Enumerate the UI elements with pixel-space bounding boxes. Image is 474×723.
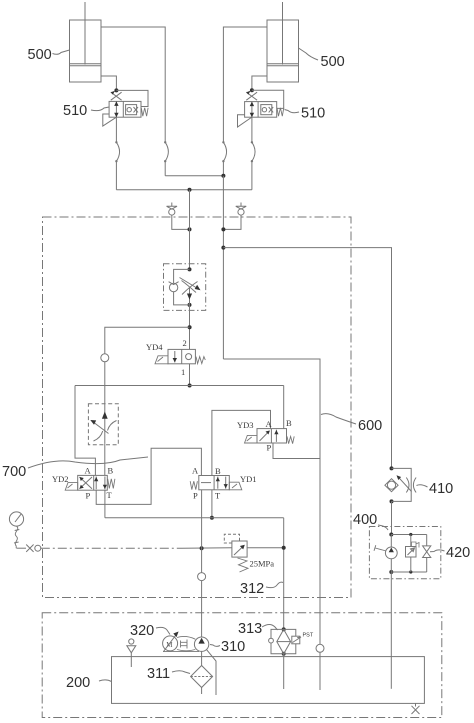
flow control valve FC1	[164, 264, 206, 311]
pressure gauge	[9, 512, 23, 548]
gauge line dash-dot	[41, 547, 182, 549]
wire 510R bottom down	[251, 117, 253, 190]
wire YD2 P cascade to YD1 A	[96, 448, 201, 504]
wire YD1 T to return rail junction	[210, 490, 214, 520]
wire right cylinder top port down	[223, 27, 267, 176]
svg-text:500: 500	[28, 47, 52, 63]
wire 510L bottom down	[115, 117, 117, 190]
svg-text:A: A	[192, 466, 199, 476]
svg-text:A: A	[266, 419, 273, 429]
wire rail left leg to YD2 A	[75, 386, 95, 476]
solenoid valve YD3	[237, 418, 294, 453]
wire pump pressure line	[201, 490, 203, 637]
svg-text:200: 200	[66, 675, 90, 691]
wire pump case drain	[206, 649, 216, 695]
throttle check valve 410	[385, 466, 416, 503]
wire main line FC1 to YD4	[188, 305, 192, 350]
label 311	[147, 666, 190, 682]
wire supply rail y385	[75, 385, 284, 387]
wire YD1 B up and to YD3 A	[212, 410, 271, 475]
solenoid valve YD1	[190, 466, 256, 501]
node main line TP1 junction	[188, 227, 192, 231]
svg-text:510: 510	[63, 103, 87, 119]
hand pump unit 400 dashed box	[369, 527, 440, 579]
drain plug mark	[412, 703, 420, 714]
check ball on tank drain line	[316, 644, 324, 690]
wire 313 to tank	[283, 654, 285, 689]
svg-text:T: T	[107, 490, 113, 500]
svg-text:311: 311	[147, 666, 170, 682]
label 510 left	[63, 103, 109, 119]
wire hand pump to tank	[390, 572, 392, 689]
wire left cylinder top port down	[101, 27, 165, 176]
svg-text:B: B	[215, 466, 221, 476]
dash-dot enclosure 200	[42, 613, 442, 718]
wire rod line down to corner	[221, 176, 225, 359]
relief valve 312	[224, 534, 285, 572]
label 400	[353, 512, 388, 530]
svg-text:420: 420	[446, 545, 470, 561]
label 313	[238, 621, 278, 637]
svg-text:312: 312	[240, 581, 264, 597]
svg-text:25MPa: 25MPa	[250, 559, 275, 569]
wire rail right leg to YD3 B	[283, 386, 285, 429]
svg-text:313: 313	[238, 621, 262, 637]
hose arc on line x165	[164, 141, 168, 162]
svg-text:B: B	[286, 418, 292, 428]
hose arc on line x116	[115, 141, 119, 162]
wire rod line to right riser	[223, 248, 391, 469]
svg-text:P: P	[86, 491, 91, 501]
cylinder 500 right	[267, 2, 299, 82]
svg-text:600: 600	[358, 418, 382, 434]
svg-text:P: P	[193, 491, 198, 501]
svg-text:410: 410	[429, 481, 453, 497]
gauge isolator throttle	[17, 545, 41, 552]
svg-text:2: 2	[183, 338, 187, 348]
svg-text:1: 1	[181, 367, 185, 377]
svg-text:A: A	[85, 466, 92, 476]
wire return rail y518	[105, 517, 284, 519]
label 310	[210, 639, 245, 655]
hose arc on line x223	[222, 141, 226, 162]
label 600	[321, 414, 382, 434]
wire FC2 to YD2 B	[104, 443, 106, 475]
wire left cylinder bottom port to 510L	[101, 76, 116, 89]
dash-dot enclosure 700	[43, 217, 352, 598]
wire pump suction	[201, 651, 203, 665]
check ball on left branch	[101, 354, 109, 404]
wire return line down right	[283, 518, 285, 630]
solenoid valve YD2	[52, 466, 115, 501]
coupling motor-pump	[163, 636, 199, 651]
svg-text:320: 320	[130, 623, 154, 639]
label 200	[66, 675, 112, 691]
wire YD3 P drop	[273, 443, 320, 459]
wire rod line branch to tank via YD3 P	[223, 359, 320, 644]
wire rod-side header y176	[165, 174, 225, 178]
svg-text:T: T	[215, 491, 221, 501]
svg-text:500: 500	[321, 54, 345, 70]
wire piston-side header y190	[116, 188, 252, 192]
label 500 left	[28, 47, 70, 63]
check ball on pump line	[198, 573, 206, 581]
cylinder 500 left	[70, 2, 102, 82]
wire gauge line to relief	[182, 547, 232, 549]
label 312	[240, 581, 283, 597]
counterbalance valve 510 left	[103, 88, 148, 126]
node pump line gauge tap	[200, 546, 204, 550]
svg-text:M: M	[166, 641, 173, 649]
svg-text:P: P	[267, 443, 272, 453]
svg-text:YD1: YD1	[240, 474, 257, 484]
label 510 right	[285, 106, 326, 122]
svg-text:YD2: YD2	[52, 474, 69, 484]
motor 320	[163, 632, 179, 652]
pump 310	[194, 637, 208, 651]
svg-text:PST: PST	[303, 633, 314, 639]
hand pump 420 internals	[374, 533, 431, 575]
counterbalance valve 510 right	[238, 88, 284, 127]
tank 200	[112, 657, 425, 704]
label 500 right	[299, 48, 345, 70]
flow control valve FC2	[88, 404, 118, 445]
hose arc on line x252	[251, 141, 255, 162]
label 320	[130, 623, 170, 639]
return filter 313 assembly	[269, 627, 314, 655]
svg-text:510: 510	[301, 106, 325, 122]
svg-text:400: 400	[353, 512, 377, 528]
svg-text:YD3: YD3	[237, 420, 254, 430]
wire 410 to hand pump unit	[391, 501, 393, 534]
wire main pressure line upper	[189, 190, 191, 270]
tank breather	[127, 639, 136, 667]
label 410	[417, 481, 454, 497]
svg-text:YD4: YD4	[146, 342, 163, 352]
suction filter 311	[191, 666, 213, 695]
label 700	[2, 457, 148, 480]
wire branch left from main to FC2 leg	[105, 327, 190, 354]
wire YD2 T to return rail	[104, 490, 106, 518]
svg-text:B: B	[108, 466, 114, 476]
svg-text:700: 700	[2, 464, 26, 480]
svg-text:310: 310	[221, 639, 245, 655]
wire YD4 to supply rail	[188, 364, 192, 388]
label 420	[430, 545, 470, 561]
solenoid valve YD4	[146, 338, 205, 377]
test point TP1	[167, 203, 190, 230]
wire right cylinder bottom port to 510R	[252, 76, 267, 89]
node rod line TP2 junction	[221, 227, 225, 231]
test point TP2	[223, 203, 246, 230]
